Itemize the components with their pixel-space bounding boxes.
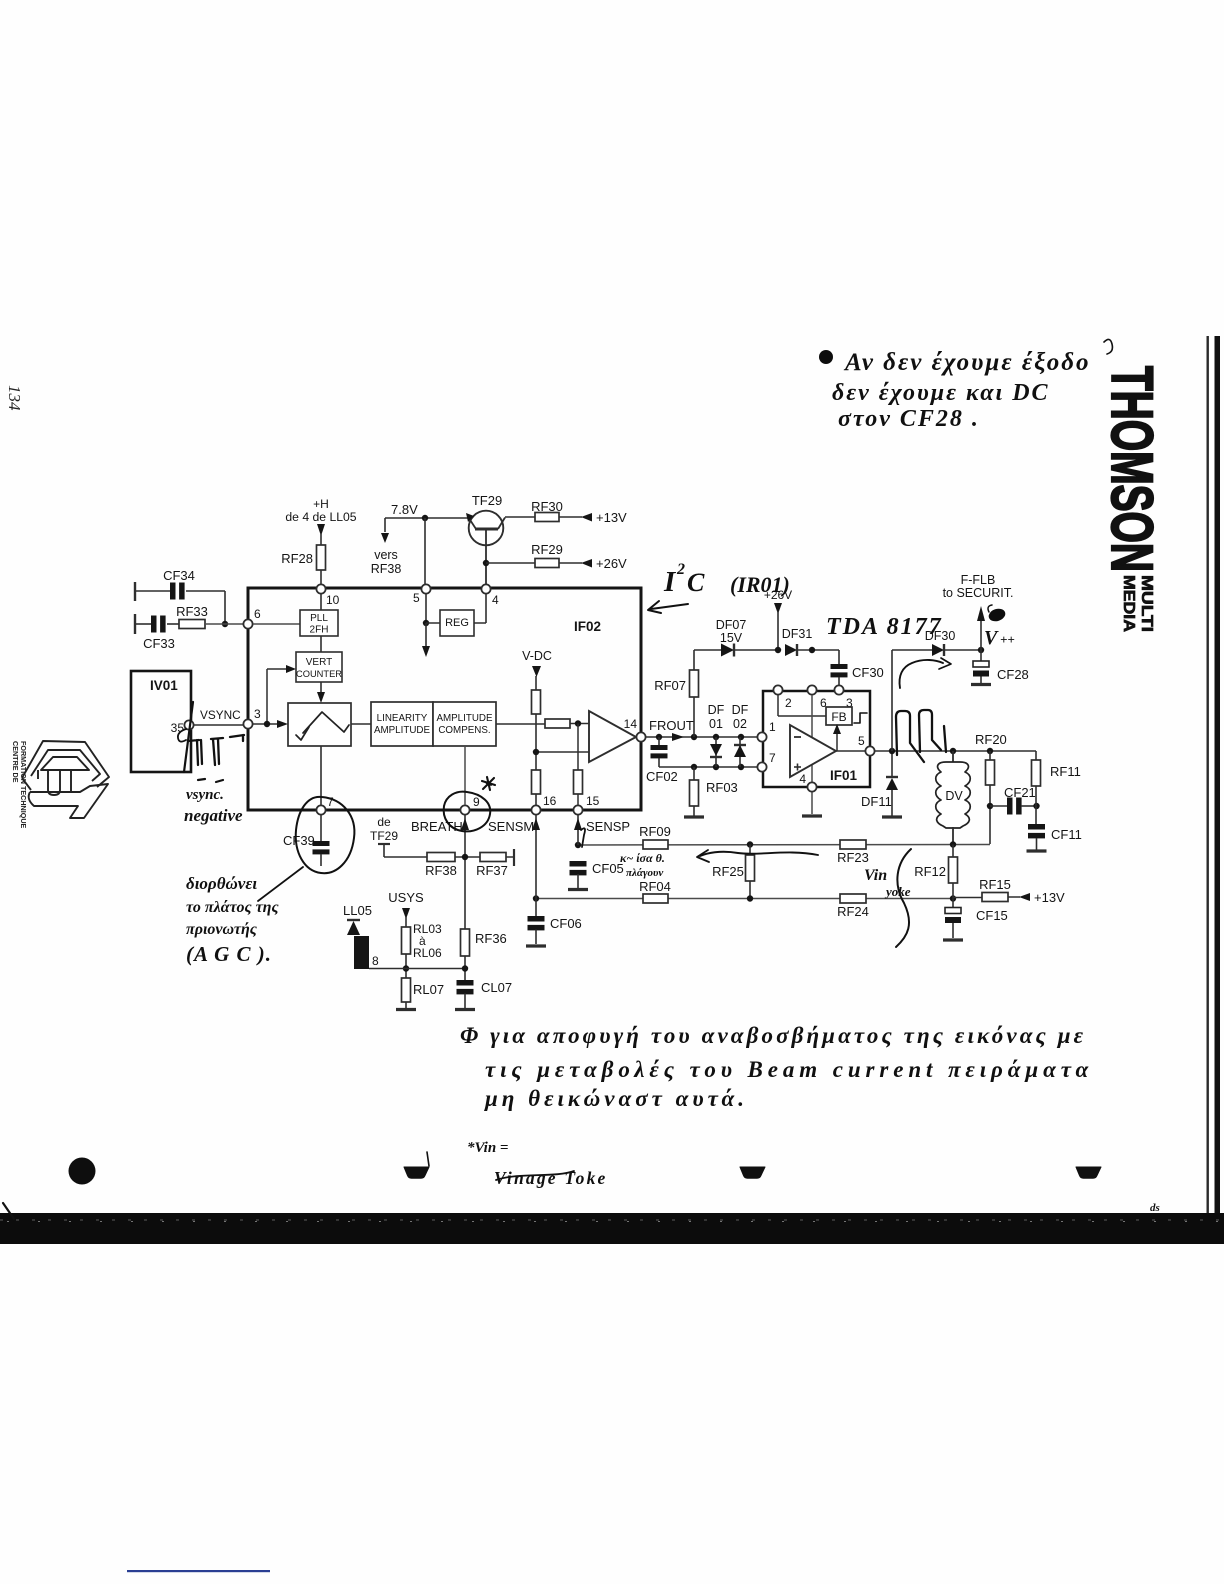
svg-text:DV: DV <box>945 789 963 803</box>
svg-text:TF29: TF29 <box>370 829 398 843</box>
svg-text:02: 02 <box>733 717 747 731</box>
svg-text:7.8V: 7.8V <box>391 502 418 517</box>
svg-text:Vinage Toke: Vinage Toke <box>494 1168 608 1188</box>
svg-text:(IR01): (IR01) <box>730 572 790 597</box>
svg-text:διορθώνει: διορθώνει <box>186 874 257 893</box>
svg-text:RF36: RF36 <box>475 931 507 946</box>
svg-text:το πλάτος της: το πλάτος της <box>186 899 279 916</box>
svg-text:Φ για αποφυγή του αναβοσβήματο: Φ για αποφυγή του αναβοσβήματος της εικό… <box>460 1023 1086 1048</box>
svg-text:CF15: CF15 <box>976 908 1008 923</box>
svg-text:+H: +H <box>313 497 329 511</box>
svg-text:CENTRE DE: CENTRE DE <box>11 741 20 783</box>
svg-text:yoke: yoke <box>884 884 911 899</box>
svg-text:RF07: RF07 <box>654 678 686 693</box>
svg-text:δεν έχουμε και DC: δεν έχουμε και DC <box>832 380 1050 406</box>
svg-text:CF39: CF39 <box>283 833 315 848</box>
svg-text:9: 9 <box>473 795 480 809</box>
svg-text:IV01: IV01 <box>150 678 178 693</box>
svg-text:de 4 de LL05: de 4 de LL05 <box>285 510 356 524</box>
svg-text:2: 2 <box>785 696 792 710</box>
svg-text:FORMATION TECHNIQUE: FORMATION TECHNIQUE <box>19 741 28 829</box>
svg-text:16: 16 <box>543 794 557 808</box>
svg-text:RL06: RL06 <box>413 946 442 960</box>
svg-text:CF11: CF11 <box>1051 827 1082 842</box>
svg-text:DF11: DF11 <box>861 794 892 809</box>
svg-text:LINEARITY: LINEARITY <box>377 713 428 724</box>
svg-text:DF07: DF07 <box>716 618 747 632</box>
svg-text:+13V: +13V <box>1034 890 1065 905</box>
svg-text:8: 8 <box>372 954 379 968</box>
svg-text:2: 2 <box>676 561 685 578</box>
svg-text:RF09: RF09 <box>639 824 671 839</box>
svg-text:LL05: LL05 <box>343 903 372 918</box>
svg-text:++: ++ <box>1000 632 1015 647</box>
svg-text:CF28: CF28 <box>997 667 1029 682</box>
svg-text:RF29: RF29 <box>531 542 563 557</box>
svg-text:RF20: RF20 <box>975 732 1007 747</box>
svg-text:F-FLB: F-FLB <box>961 573 996 587</box>
svg-text:VERT: VERT <box>306 657 333 668</box>
svg-text:πριονωτής: πριονωτής <box>186 921 257 938</box>
svg-text:35: 35 <box>171 721 185 735</box>
svg-text:RF23: RF23 <box>837 850 869 865</box>
svg-text:FB: FB <box>831 710 846 724</box>
svg-text:REG: REG <box>445 617 469 629</box>
svg-text:6: 6 <box>254 607 261 621</box>
svg-text:COUNTER: COUNTER <box>296 669 342 679</box>
svg-text:THOMSON: THOMSON <box>1099 366 1164 572</box>
svg-text:MEDIA: MEDIA <box>1120 575 1137 632</box>
svg-text:BREATH: BREATH <box>411 819 463 834</box>
svg-text:RF11: RF11 <box>1050 764 1081 779</box>
svg-text:Αν δεν έχουμε έξοδο: Αν δεν έχουμε έξοδο <box>843 349 1091 376</box>
svg-text:vers: vers <box>374 548 398 562</box>
svg-text:PLL: PLL <box>310 613 328 624</box>
svg-text:IF02: IF02 <box>574 619 601 634</box>
svg-text:DF31: DF31 <box>782 627 813 641</box>
svg-text:USYS: USYS <box>388 890 424 905</box>
svg-text:CF33: CF33 <box>143 636 175 651</box>
svg-text:RF12: RF12 <box>914 864 946 879</box>
svg-text:4: 4 <box>492 593 499 607</box>
svg-text:SENSP: SENSP <box>586 819 630 834</box>
svg-text:3: 3 <box>254 707 261 721</box>
svg-text:15V: 15V <box>720 631 743 645</box>
svg-text:4: 4 <box>799 772 806 786</box>
svg-text:RF04: RF04 <box>639 879 671 894</box>
svg-text:RF38: RF38 <box>425 863 457 878</box>
svg-text:negative: negative <box>184 806 243 825</box>
svg-text:RF24: RF24 <box>837 904 869 919</box>
svg-text:C: C <box>687 568 705 597</box>
svg-text:COMPENS.: COMPENS. <box>438 725 490 736</box>
svg-text:1: 1 <box>769 720 776 734</box>
svg-text:CF21: CF21 <box>1004 785 1036 800</box>
svg-text:15: 15 <box>586 794 600 808</box>
svg-text:I: I <box>663 566 677 598</box>
svg-text:Vin: Vin <box>864 867 887 884</box>
svg-text:RF15: RF15 <box>979 877 1011 892</box>
svg-text:στον CF28 .: στον CF28 . <box>838 406 980 432</box>
svg-text:+26V: +26V <box>596 556 627 571</box>
svg-text:RL07: RL07 <box>413 982 444 997</box>
svg-text:DF: DF <box>732 703 749 717</box>
svg-text:de: de <box>377 815 391 829</box>
svg-text:RF28: RF28 <box>281 551 313 566</box>
svg-text:AMPLITUDE: AMPLITUDE <box>436 713 493 724</box>
svg-text:FROUT: FROUT <box>649 718 694 733</box>
svg-text:RF37: RF37 <box>476 863 508 878</box>
svg-text:AMPLITUDE: AMPLITUDE <box>374 725 431 736</box>
svg-text:CL07: CL07 <box>481 980 512 995</box>
svg-text:MULTI: MULTI <box>1138 575 1155 632</box>
svg-text:134: 134 <box>5 385 24 411</box>
svg-text:*Vin =: *Vin = <box>467 1140 508 1156</box>
svg-text:CF02: CF02 <box>646 769 678 784</box>
svg-text:RF03: RF03 <box>706 780 738 795</box>
svg-text:TF29: TF29 <box>472 493 502 508</box>
svg-text:vsync.: vsync. <box>186 787 224 803</box>
svg-text:TDA 8177: TDA 8177 <box>826 614 943 640</box>
svg-text:5: 5 <box>858 734 865 748</box>
svg-text:2FH: 2FH <box>310 625 329 636</box>
svg-text:πλάγουν: πλάγουν <box>626 867 663 879</box>
svg-text:CF30: CF30 <box>852 665 884 680</box>
svg-text:V: V <box>984 627 999 649</box>
svg-text:V-DC: V-DC <box>522 649 552 663</box>
svg-text:SENSM: SENSM <box>488 819 534 834</box>
svg-text:RF38: RF38 <box>371 562 402 576</box>
svg-text:10: 10 <box>326 593 340 607</box>
svg-text:μη θεικώναστ αυτά.: μη θεικώναστ αυτά. <box>484 1086 748 1111</box>
svg-text:7: 7 <box>769 751 776 765</box>
svg-text:RF33: RF33 <box>176 604 208 619</box>
svg-text:CF06: CF06 <box>550 916 582 931</box>
svg-text:+13V: +13V <box>596 510 627 525</box>
svg-text:RL03: RL03 <box>413 922 442 936</box>
svg-text:RF25: RF25 <box>712 864 744 879</box>
svg-text:IF01: IF01 <box>830 768 858 783</box>
svg-text:κ~ ίσα θ.: κ~ ίσα θ. <box>620 851 665 865</box>
svg-text:01: 01 <box>709 717 723 731</box>
svg-text:(A G C ).: (A G C ). <box>186 942 272 966</box>
svg-text:5: 5 <box>413 591 420 605</box>
svg-text:ds: ds <box>1150 1202 1160 1214</box>
svg-text:DF: DF <box>708 703 725 717</box>
svg-text:14: 14 <box>624 717 638 731</box>
svg-text:CF34: CF34 <box>163 568 195 583</box>
svg-text:VSYNC: VSYNC <box>200 708 241 722</box>
svg-text:to SECURIT.: to SECURIT. <box>943 586 1014 600</box>
svg-text:RF30: RF30 <box>531 499 563 514</box>
svg-text:τις μεταβολές του Beam current: τις μεταβολές του Beam current πειράματα <box>485 1057 1093 1082</box>
